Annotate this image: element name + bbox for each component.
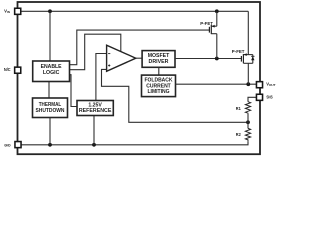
mosfet driver box U5: [142, 51, 175, 68]
wire reference to inverting input: [96, 54, 107, 101]
wire feedback to non-inverting input: [102, 69, 249, 122]
svg-text:SNS: SNS: [266, 94, 272, 99]
svg-text:DRIVER: DRIVER: [149, 59, 169, 65]
wire R1 to R2: [247, 114, 249, 128]
svg-text:LOGIC: LOGIC: [43, 70, 60, 76]
transistor Q1 P-FET: [200, 11, 217, 34]
pin SNS: [256, 94, 272, 100]
IC boundary: [18, 2, 261, 154]
svg-text:R1: R1: [236, 106, 242, 111]
wire reference to gnd: [93, 116, 95, 145]
svg-text:REFERENCE: REFERENCE: [79, 108, 112, 114]
wire enable to pfet1 gate: [70, 30, 210, 65]
node junction feedback tap: [246, 120, 250, 124]
node junction VIN-pfet1: [215, 9, 219, 13]
node junction gnd-thermal: [48, 143, 52, 147]
svg-text:LIMITING: LIMITING: [148, 89, 170, 95]
svg-text:SHUTDOWN: SHUTDOWN: [36, 108, 65, 114]
node junction gnd-ref: [92, 143, 96, 147]
enable logic box U2: [33, 61, 70, 82]
wire pfet1 drain: [216, 34, 218, 59]
wire thermal shutdown to gnd: [49, 118, 51, 145]
thermal shutdown box U3: [33, 98, 68, 118]
wire enable to op-amp top: [70, 34, 121, 69]
wire GND rail: [22, 142, 249, 145]
svg-text:N/C: N/C: [4, 67, 11, 72]
wire driver to pfet gates: [175, 58, 241, 60]
wire enable to reference: [70, 75, 78, 107]
node junction pfet2drain-vout: [246, 82, 250, 86]
pin VIN: [4, 8, 21, 14]
svg-text:GND: GND: [4, 142, 10, 147]
op-amp U1: [107, 45, 136, 71]
pin GND: [4, 142, 21, 148]
pin N/C: [4, 67, 21, 73]
transistor Q2 P-FET: [232, 11, 255, 63]
foldback current limiting box U6: [142, 75, 176, 97]
wire foldback to vout: [176, 83, 257, 85]
svg-text:P-FET: P-FET: [232, 49, 245, 54]
pin VOUT: [256, 81, 275, 87]
node junction driver-pfet1drain: [215, 57, 219, 61]
wire enable supply: [49, 11, 51, 61]
wire sns sense: [248, 97, 256, 101]
wire VIN rail: [21, 10, 248, 12]
node junction VIN-enable: [48, 9, 52, 13]
wire driver to foldback: [158, 67, 160, 75]
svg-text:VIN: VIN: [4, 8, 10, 14]
wire pfet2 drain: [247, 63, 249, 84]
svg-text:R2: R2: [236, 132, 242, 137]
1.25V reference box U4: [77, 101, 113, 116]
resistor R1: [236, 102, 251, 114]
wire enable to thermal shutdown: [48, 82, 50, 99]
resistor R2: [236, 128, 251, 141]
wire op-amp output: [136, 57, 143, 59]
svg-text:VOUT: VOUT: [266, 81, 275, 87]
